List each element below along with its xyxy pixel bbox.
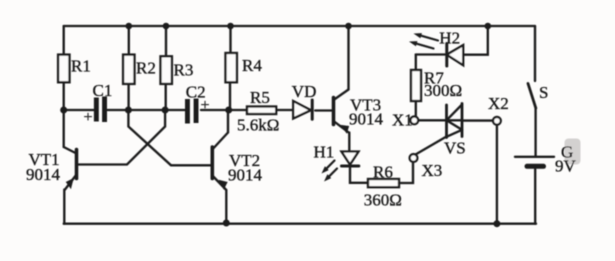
- wire X2 to bottom rail: [496, 125, 498, 224]
- wire R3 branch: [165, 26, 168, 110]
- resistor R1: [58, 55, 69, 83]
- junction bottom VT2: [223, 220, 230, 227]
- junction top R3: [163, 23, 170, 30]
- wire VT2 emitter to bottom rail: [225, 190, 227, 223]
- svg-text:R3: R3: [174, 61, 194, 80]
- diode VD: [293, 101, 311, 119]
- triac VS: [445, 105, 448, 138]
- switch S: [528, 84, 536, 109]
- wire cross coupling R3 node to VT1 base: [78, 110, 165, 165]
- transistor VT3: [332, 98, 336, 125]
- svg-text:H2: H2: [439, 29, 460, 48]
- junction top VT3: [345, 23, 352, 30]
- LED H2: [445, 44, 448, 67]
- svg-text:9V: 9V: [555, 157, 577, 176]
- resistor R5: [247, 107, 276, 115]
- resistor R6: [368, 179, 399, 187]
- svg-text:X1: X1: [392, 111, 413, 130]
- wire VT2 collector to R4 node: [227, 110, 229, 133]
- svg-text:300Ω: 300Ω: [424, 81, 462, 100]
- wire switch to battery: [534, 108, 536, 157]
- LED H1: [342, 152, 359, 165]
- svg-text:360Ω: 360Ω: [364, 191, 402, 210]
- svg-text:+: +: [201, 97, 210, 114]
- svg-text:S: S: [539, 83, 548, 102]
- wire H1 to R6: [350, 168, 368, 183]
- svg-text:R6: R6: [373, 163, 393, 182]
- wire H2 anode to top rail: [463, 26, 488, 55]
- svg-text:VS: VS: [444, 139, 466, 158]
- transistor VT1: [75, 150, 79, 179]
- battery G 9V: [515, 156, 554, 158]
- wire bottom rail: [64, 223, 536, 225]
- resistor R2: [123, 55, 134, 84]
- wire VT3 collector to top rail: [347, 26, 349, 90]
- svg-text:R4: R4: [242, 56, 262, 75]
- wire R7 top lead: [415, 55, 417, 71]
- wire H2 cathode to R7: [416, 53, 447, 55]
- svg-text:C1: C1: [93, 81, 113, 100]
- wire top supply rail: [64, 25, 535, 27]
- junction top H2: [485, 23, 492, 30]
- svg-text:R1: R1: [71, 57, 91, 76]
- wire R2 branch: [127, 26, 130, 110]
- svg-text:X3: X3: [422, 161, 443, 180]
- resistor R4: [226, 53, 237, 82]
- wire R6 to X3: [399, 162, 413, 183]
- junction mid R3: [162, 107, 169, 114]
- wire battery to bottom rail: [534, 169, 536, 224]
- transistor VT2: [211, 147, 215, 179]
- junction mid R1: [60, 107, 67, 114]
- junction bottom X2: [493, 220, 500, 227]
- terminal X3: [410, 154, 418, 162]
- svg-text:X2: X2: [488, 94, 509, 113]
- wire X1 to triac: [418, 119, 446, 121]
- junction top R4: [227, 23, 234, 30]
- terminal X2: [493, 117, 501, 125]
- wire R7 to X1: [415, 101, 417, 116]
- resistor R7: [411, 70, 421, 101]
- svg-text:+: +: [84, 109, 93, 126]
- wire X3 to triac gate: [416, 137, 447, 155]
- wire right border top to switch: [534, 26, 536, 81]
- capacitor C1: [94, 97, 107, 123]
- wire VT1 emitter to bottom rail: [63, 190, 65, 224]
- svg-text:5.6kΩ: 5.6kΩ: [237, 116, 279, 135]
- svg-text:R2: R2: [136, 59, 156, 78]
- svg-text:9014: 9014: [26, 165, 61, 184]
- svg-text:9014: 9014: [228, 166, 263, 185]
- junction top R2: [126, 23, 133, 30]
- capacitor C2: [185, 99, 199, 124]
- junction mid R2: [125, 107, 132, 114]
- svg-text:H1: H1: [314, 143, 335, 162]
- wire cross coupling R2 node to VT2 base: [128, 110, 211, 165]
- wire VT3 emitter to H1: [348, 133, 350, 152]
- junction mid R4: [225, 107, 232, 114]
- svg-text:9014: 9014: [349, 110, 384, 129]
- wire mid rail segments: [64, 109, 333, 112]
- svg-text:VD: VD: [292, 82, 317, 101]
- resistor R3: [161, 56, 172, 84]
- svg-text:R5: R5: [250, 88, 270, 107]
- wire left border (R1 branch): [63, 26, 65, 147]
- wire triac to X2: [462, 119, 493, 121]
- wire R4 branch: [229, 26, 232, 110]
- terminal X1: [410, 116, 418, 124]
